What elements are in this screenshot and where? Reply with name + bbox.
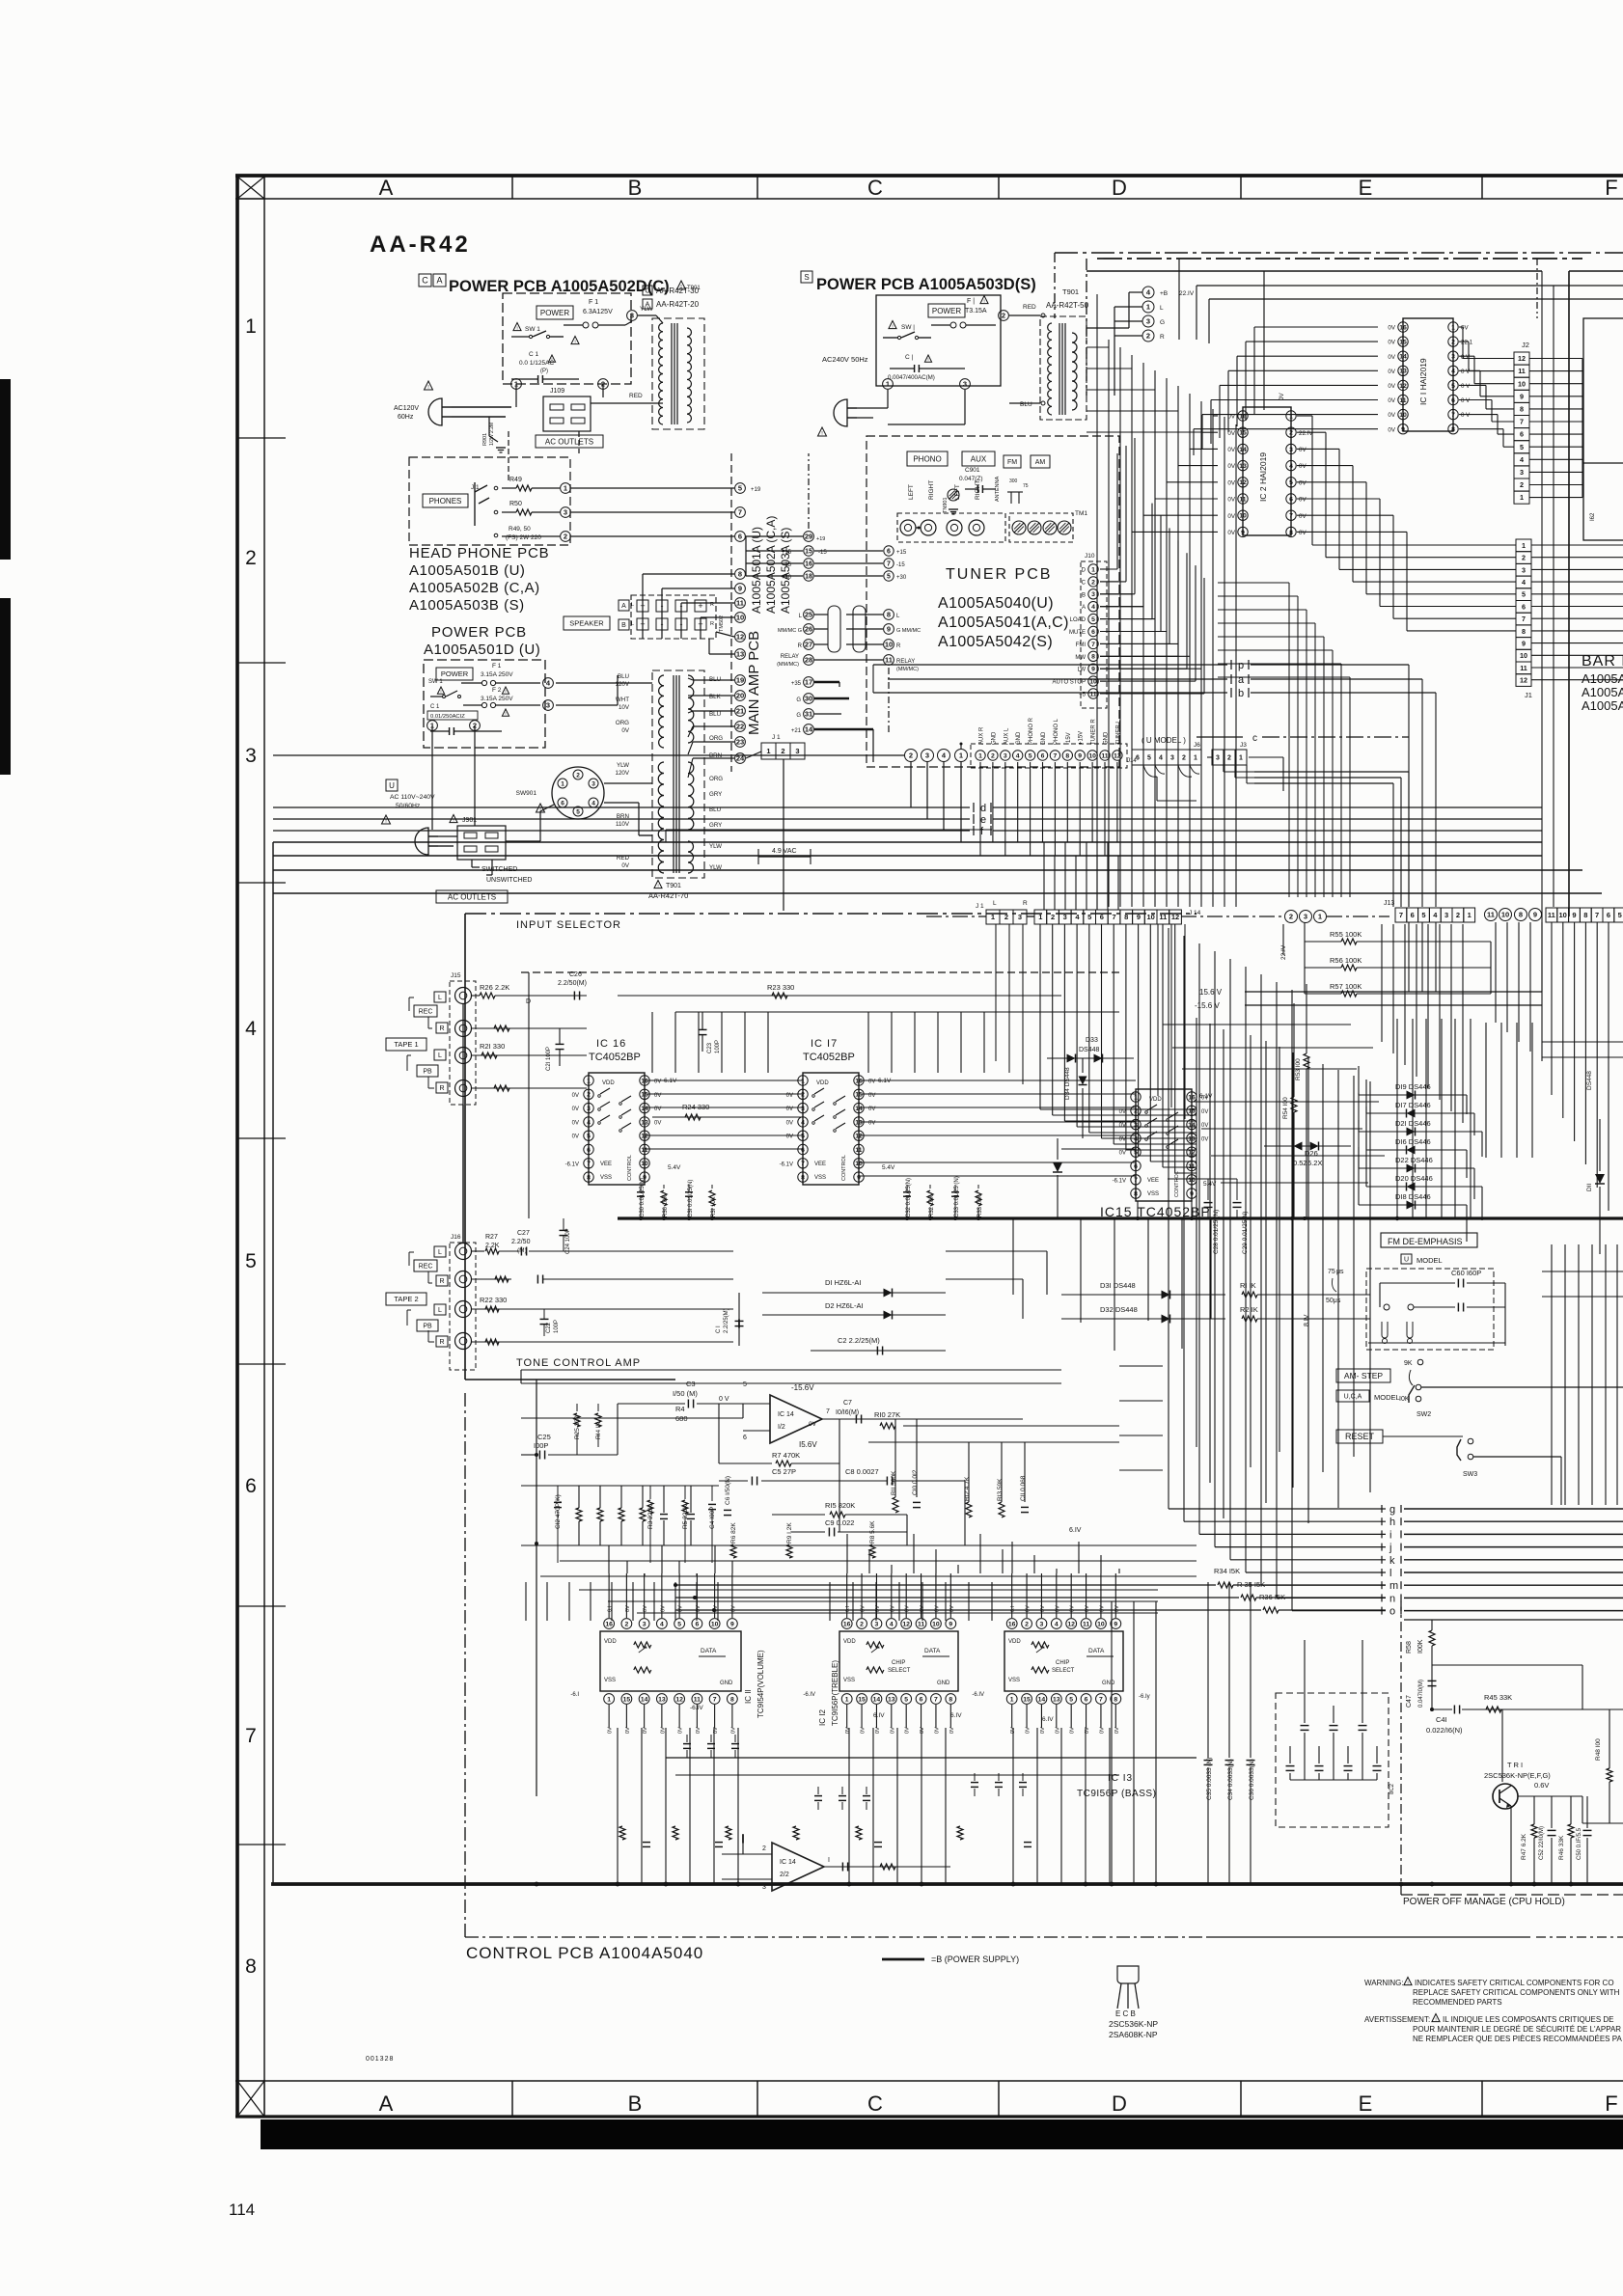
svg-text:SW2: SW2 — [1417, 1411, 1431, 1418]
svg-text:14: 14 — [641, 1106, 648, 1112]
svg-text:7: 7 — [887, 561, 891, 568]
svg-text:-15.6V: -15.6V — [791, 1383, 814, 1392]
svg-text:7: 7 — [1522, 615, 1526, 623]
svg-text:RED: RED — [629, 393, 643, 399]
svg-text:POWER: POWER — [540, 309, 569, 317]
svg-text:PB: PB — [423, 1069, 432, 1076]
svg-text:0V: 0V — [1388, 325, 1395, 332]
svg-text:0V: 0V — [730, 1727, 736, 1734]
svg-text:R50: R50 — [509, 501, 522, 507]
svg-text:4: 4 — [1289, 463, 1293, 470]
svg-text:21: 21 — [736, 707, 744, 716]
svg-text:VDD: VDD — [843, 1639, 856, 1645]
svg-text:TONE CONTROL AMP: TONE CONTROL AMP — [516, 1357, 641, 1369]
svg-text:9: 9 — [730, 1621, 734, 1627]
svg-text:L: L — [438, 1052, 442, 1059]
svg-text:30: 30 — [805, 695, 812, 703]
svg-text:11: 11 — [1101, 752, 1108, 759]
svg-text:a: a — [1238, 674, 1245, 686]
svg-text:1: 1 — [801, 1078, 805, 1084]
svg-text:I/50 (M): I/50 (M) — [673, 1389, 698, 1398]
svg-text:AA-R42T-30: AA-R42T-30 — [656, 287, 700, 295]
svg-text:1: 1 — [607, 1696, 611, 1703]
svg-text:8.IV: 8.IV — [1304, 1314, 1310, 1326]
svg-text:A1005A501D (U): A1005A501D (U) — [424, 642, 540, 658]
svg-text:14: 14 — [1038, 1696, 1046, 1703]
svg-text:0V: 0V — [654, 1080, 661, 1085]
svg-text:4: 4 — [1159, 755, 1163, 762]
svg-text:POWER PCB: POWER PCB — [431, 624, 527, 641]
svg-text:CHIP: CHIP — [892, 1660, 905, 1666]
svg-text:0V: 0V — [1299, 497, 1307, 504]
svg-text:INDICATES SAFETY CRITICAL COMP: INDICATES SAFETY CRITICAL COMPONENTS FOR… — [1415, 1979, 1614, 1987]
svg-text:9: 9 — [887, 625, 891, 634]
svg-text:4: 4 — [1451, 369, 1455, 375]
svg-text:!: ! — [551, 357, 552, 362]
svg-text:R45 33K: R45 33K — [1484, 1693, 1512, 1702]
svg-text:7: 7 — [1595, 911, 1599, 919]
svg-text:4: 4 — [1520, 455, 1524, 464]
svg-text:U: U — [389, 781, 395, 790]
svg-text:1: 1 — [1146, 303, 1150, 312]
svg-text:3: 3 — [1040, 1621, 1044, 1627]
svg-text:R22 330: R22 330 — [480, 1296, 507, 1304]
svg-text:10: 10 — [932, 1621, 940, 1627]
svg-text:WARNING:: WARNING: — [1364, 1979, 1404, 1987]
svg-text:-6.1V: -6.1V — [780, 1162, 793, 1167]
svg-text:R36 I5K: R36 I5K — [1259, 1593, 1285, 1601]
svg-text:DATA: DATA — [701, 1648, 717, 1654]
svg-text:7: 7 — [245, 1725, 257, 1747]
svg-text:0V: 0V — [621, 862, 629, 869]
svg-text:12: 12 — [1239, 479, 1247, 486]
svg-text:D26: D26 — [1305, 1149, 1318, 1158]
svg-text:0V: 0V — [1299, 463, 1307, 470]
svg-text:11: 11 — [694, 1696, 701, 1703]
svg-text:14: 14 — [1188, 1122, 1196, 1129]
svg-text:6.1V: 6.1V — [1199, 1093, 1213, 1100]
svg-text:12: 12 — [1188, 1150, 1196, 1157]
svg-text:6: 6 — [738, 533, 742, 541]
svg-text:T3.15A: T3.15A — [965, 308, 987, 314]
svg-text:C 1: C 1 — [430, 704, 440, 710]
svg-text:J10: J10 — [1085, 553, 1095, 560]
svg-text:3: 3 — [1004, 752, 1007, 759]
svg-text:d: d — [980, 803, 986, 814]
svg-text:PB: PB — [423, 1324, 432, 1330]
svg-text:17: 17 — [805, 678, 812, 687]
svg-text:B: B — [628, 176, 643, 200]
svg-text:9: 9 — [1190, 1191, 1194, 1198]
svg-text:CONTROL: CONTROL — [841, 1155, 847, 1181]
svg-text:R58: R58 — [1406, 1641, 1413, 1654]
svg-text:C35 0.0033 (N): C35 0.0033 (N) — [1206, 1758, 1213, 1800]
svg-text:50/60Hz: 50/60Hz — [396, 803, 421, 809]
svg-text:C8 0.0027: C8 0.0027 — [845, 1467, 879, 1476]
svg-text:LEFT: LEFT — [954, 484, 961, 500]
svg-text:R: R — [439, 1278, 444, 1285]
svg-text:YLW: YLW — [617, 762, 629, 769]
svg-text:0V: 0V — [1055, 1727, 1060, 1734]
svg-text:AC 110V~240V: AC 110V~240V — [390, 794, 435, 801]
svg-text:RECOMMENDED PARTS: RECOMMENDED PARTS — [1413, 1998, 1502, 2007]
svg-text:ORG: ORG — [709, 735, 723, 742]
svg-text:R54 I00: R54 I00 — [1282, 1097, 1289, 1119]
svg-text:C60 I60P: C60 I60P — [1451, 1269, 1481, 1277]
svg-text:22: 22 — [736, 723, 744, 731]
svg-text:1: 1 — [845, 1696, 849, 1703]
svg-text:NE REMPLACER QUE DES PIÈCES RE: NE REMPLACER QUE DES PIÈCES RECOMMANDÉES… — [1413, 2035, 1622, 2043]
svg-text:!: ! — [453, 817, 454, 823]
svg-text:28: 28 — [805, 656, 812, 665]
svg-text:0V: 0V — [1299, 447, 1307, 453]
svg-text:F: F — [1605, 2091, 1617, 2116]
svg-text:2: 2 — [1182, 755, 1186, 762]
svg-text:2: 2 — [1289, 913, 1293, 921]
svg-text:MODEL: MODEL — [1417, 1256, 1443, 1265]
svg-text:4: 4 — [591, 800, 595, 806]
svg-text:2.2/50(M): 2.2/50(M) — [558, 980, 587, 987]
svg-text:AUX L: AUX L — [1004, 727, 1009, 745]
svg-text:300: 300 — [1009, 478, 1018, 484]
svg-text:5: 5 — [1618, 911, 1622, 919]
svg-text:13: 13 — [736, 650, 744, 659]
svg-text:FMI: FMI — [1076, 642, 1087, 648]
svg-text:1: 1 — [1134, 1094, 1138, 1101]
svg-text:C: C — [422, 276, 428, 286]
svg-text:C23: C23 — [707, 1042, 713, 1053]
svg-text:5.4V: 5.4V — [882, 1164, 895, 1171]
svg-text:6: 6 — [245, 1475, 257, 1497]
svg-text:5: 5 — [576, 808, 580, 815]
svg-text:20: 20 — [736, 692, 744, 700]
svg-text:0V: 0V — [1040, 1605, 1046, 1612]
svg-text:!: ! — [657, 883, 658, 888]
svg-text:J16: J16 — [451, 1234, 461, 1241]
svg-text:12: 12 — [675, 1696, 683, 1703]
svg-text:19: 19 — [736, 676, 744, 685]
svg-text:0V: 0V — [875, 1727, 881, 1734]
svg-text:e: e — [980, 814, 986, 826]
svg-text:L: L — [631, 621, 634, 627]
svg-text:16: 16 — [641, 1078, 648, 1084]
svg-text:0.5Z6.2X: 0.5Z6.2X — [1293, 1159, 1322, 1167]
svg-text:7: 7 — [1091, 642, 1095, 648]
svg-text:9: 9 — [738, 585, 742, 593]
svg-text:RI3 59K: RI3 59K — [997, 1478, 1004, 1501]
svg-text:CONTROL: CONTROL — [627, 1155, 633, 1181]
svg-text:!: ! — [983, 298, 984, 304]
svg-text:11: 11 — [1083, 1621, 1089, 1627]
svg-text:0V: 0V — [1388, 383, 1395, 390]
svg-text:0 V: 0 V — [1461, 412, 1471, 419]
svg-text:-6.IV: -6.IV — [972, 1692, 984, 1698]
svg-text:3: 3 — [587, 1106, 591, 1112]
svg-text:0V: 0V — [1201, 1123, 1208, 1129]
svg-text:A1005A503A (S): A1005A503A (S) — [779, 528, 792, 614]
svg-text:TUNER PCB: TUNER PCB — [946, 566, 1052, 583]
svg-text:IC II: IC II — [744, 1689, 753, 1704]
svg-text:+30: +30 — [896, 575, 907, 581]
svg-text:0 V: 0 V — [1461, 383, 1471, 390]
svg-text:0V: 0V — [1114, 1727, 1120, 1734]
svg-text:D3I DS448: D3I DS448 — [1100, 1281, 1136, 1290]
svg-text:C4I: C4I — [1436, 1715, 1447, 1724]
svg-text:14: 14 — [1239, 447, 1247, 453]
svg-text:C52 22/I0(M): C52 22/I0(M) — [1539, 1826, 1545, 1860]
svg-text:DI HZ6L-AI: DI HZ6L-AI — [825, 1278, 862, 1287]
svg-text:POUR MAINTENIR LE DEGRÉ DE SÉC: POUR MAINTENIR LE DEGRÉ DE SÉCURITÉ DE L… — [1413, 2025, 1621, 2034]
svg-text:GND: GND — [1016, 731, 1022, 745]
svg-text:9K: 9K — [1404, 1360, 1413, 1367]
svg-text:( U MODEL ): ( U MODEL ) — [1142, 736, 1186, 745]
svg-text:D33: D33 — [1086, 1037, 1098, 1044]
svg-text:3: 3 — [1444, 911, 1448, 919]
svg-text:120V: 120V — [616, 681, 630, 688]
svg-text:C26: C26 — [569, 971, 582, 978]
svg-text:4: 4 — [1522, 578, 1526, 587]
svg-text:!: ! — [927, 357, 928, 362]
svg-text:2SC536K-NP(E,F,G): 2SC536K-NP(E,F,G) — [1484, 1771, 1551, 1780]
svg-text:R4: R4 — [675, 1405, 685, 1413]
svg-text:8: 8 — [1522, 627, 1526, 636]
svg-text:9: 9 — [1522, 640, 1526, 648]
svg-text:REC: REC — [419, 1009, 433, 1016]
svg-text:8: 8 — [730, 1696, 734, 1703]
svg-text:0V: 0V — [1299, 479, 1307, 486]
svg-text:o: o — [1389, 1606, 1395, 1618]
svg-text:-6.I: -6.I — [570, 1692, 579, 1698]
svg-text:16: 16 — [855, 1078, 863, 1084]
svg-text:R6 82K: R6 82K — [730, 1522, 737, 1544]
svg-text:μs: μs — [1336, 1269, 1344, 1275]
svg-text:4: 4 — [245, 1018, 257, 1040]
svg-text:0V: 0V — [809, 1421, 817, 1428]
svg-text:-6.1V: -6.1V — [565, 1162, 579, 1167]
svg-text:4: 4 — [1091, 604, 1095, 611]
svg-text:1: 1 — [1451, 324, 1455, 331]
svg-text:J15: J15 — [451, 972, 461, 979]
svg-text:=B (POWER SUPPLY): =B (POWER SUPPLY) — [931, 1954, 1019, 1964]
svg-text:AVERTISSEMENT:: AVERTISSEMENT: — [1364, 2015, 1430, 2024]
svg-text:c: c — [1252, 733, 1257, 744]
svg-text:GND: GND — [1102, 1681, 1115, 1686]
svg-text:0V: 0V — [643, 1605, 648, 1612]
svg-text:RELAY: RELAY — [781, 654, 799, 660]
svg-text:5: 5 — [801, 1134, 805, 1140]
svg-text:!: ! — [574, 339, 575, 344]
svg-text:C2I 100P: C2I 100P — [546, 1047, 552, 1071]
svg-text:0.0047/400AC(M): 0.0047/400AC(M) — [888, 374, 935, 381]
svg-text:3: 3 — [875, 1621, 879, 1627]
svg-text:DATA: DATA — [1088, 1648, 1105, 1654]
svg-text:HEAD PHONE PCB: HEAD PHONE PCB — [409, 545, 549, 561]
svg-text:10: 10 — [1097, 1621, 1105, 1627]
svg-text:8: 8 — [738, 570, 742, 579]
svg-text:6: 6 — [801, 1147, 805, 1154]
svg-text:10: 10 — [1188, 1177, 1196, 1184]
svg-text:R49, 50: R49, 50 — [509, 526, 531, 533]
svg-text:12: 12 — [902, 1621, 910, 1627]
svg-text:15: 15 — [641, 1092, 648, 1099]
svg-text:75: 75 — [1023, 483, 1029, 489]
svg-text:G: G — [796, 697, 801, 703]
svg-text:A: A — [621, 603, 626, 610]
svg-text:7: 7 — [1112, 913, 1115, 921]
svg-text:BLK: BLK — [709, 694, 722, 700]
svg-text:R46 33K: R46 33K — [1558, 1835, 1565, 1860]
svg-text:POWER: POWER — [441, 670, 469, 678]
svg-text:I: I — [828, 1857, 830, 1864]
svg-text:3: 3 — [801, 1106, 805, 1112]
svg-text:16: 16 — [1188, 1094, 1196, 1101]
svg-text:3: 3 — [245, 745, 257, 767]
svg-text:C: C — [1082, 580, 1087, 586]
svg-text:SPEAKER: SPEAKER — [569, 619, 604, 628]
svg-text:12: 12 — [736, 633, 744, 642]
svg-text:0V: 0V — [1388, 369, 1395, 375]
svg-text:0V: 0V — [625, 1605, 631, 1612]
svg-text:11: 11 — [1188, 1163, 1195, 1170]
svg-text:2: 2 — [860, 1621, 864, 1627]
svg-text:0V: 0V — [1119, 1123, 1126, 1129]
svg-text:0 V: 0 V — [719, 1396, 729, 1403]
svg-text:6.IV: 6.IV — [1069, 1527, 1082, 1534]
svg-text:U: U — [1404, 1257, 1409, 1264]
svg-text:i: i — [1389, 1529, 1391, 1541]
svg-text:J3: J3 — [1240, 742, 1247, 749]
svg-text:12: 12 — [1399, 383, 1407, 390]
svg-text:10: 10 — [711, 1621, 719, 1627]
svg-text:6: 6 — [1411, 911, 1415, 919]
svg-text:5: 5 — [1421, 911, 1425, 919]
svg-text:J109: J109 — [550, 388, 564, 395]
svg-text:(FS) 2W 220: (FS) 2W 220 — [506, 534, 541, 541]
svg-text:IC 16: IC 16 — [596, 1038, 626, 1050]
svg-text:I00K: I00K — [1417, 1639, 1424, 1654]
svg-text:!: ! — [1435, 2016, 1436, 2022]
svg-text:R8 5.6K: R8 5.6K — [869, 1520, 876, 1544]
svg-text:VSS: VSS — [814, 1175, 826, 1181]
svg-text:2: 2 — [762, 1845, 766, 1852]
svg-text:3: 3 — [795, 747, 799, 755]
svg-text:RII 560K: RII 560K — [891, 1470, 897, 1495]
svg-text:14: 14 — [855, 1106, 863, 1112]
svg-text:13: 13 — [1399, 369, 1407, 375]
svg-text:D2 HZ6L-AI: D2 HZ6L-AI — [825, 1301, 864, 1310]
svg-text:001328: 001328 — [366, 2056, 394, 2063]
svg-text:1/2W 2.2M: 1/2W 2.2M — [489, 423, 495, 446]
svg-text:A: A — [436, 276, 442, 286]
svg-text:5: 5 — [743, 1381, 747, 1388]
svg-text:75: 75 — [1328, 1269, 1335, 1275]
svg-text:5: 5 — [1289, 479, 1293, 486]
svg-text:6: 6 — [1289, 496, 1293, 503]
svg-text:3: 3 — [1091, 591, 1095, 598]
svg-text:!: ! — [505, 689, 506, 694]
svg-text:5: 5 — [1091, 616, 1095, 623]
svg-text:26: 26 — [805, 625, 812, 634]
svg-text:11: 11 — [855, 1147, 862, 1154]
svg-text:0V: 0V — [1026, 1605, 1032, 1612]
svg-text:-6.IV: -6.IV — [803, 1692, 815, 1698]
svg-text:15: 15 — [1239, 430, 1247, 437]
svg-text:8: 8 — [801, 1175, 805, 1182]
svg-text:0V: 0V — [678, 1727, 684, 1734]
svg-text:16: 16 — [1008, 1621, 1016, 1627]
svg-text:AUTO STOP: AUTO STOP — [1053, 680, 1086, 686]
svg-text:AUX: AUX — [971, 454, 987, 463]
svg-text:15: 15 — [1188, 1108, 1196, 1115]
svg-text:IL INDIQUE LES COMPOSANTS CRIT: IL INDIQUE LES COMPOSANTS CRITIQUES DE — [1443, 2015, 1614, 2024]
svg-text:GND: GND — [720, 1681, 733, 1686]
svg-text:8: 8 — [1114, 1696, 1117, 1703]
svg-text:R: R — [1160, 334, 1165, 341]
svg-text:0V: 0V — [1461, 325, 1469, 332]
svg-text:BAR M: BAR M — [1582, 653, 1623, 670]
svg-text:0V: 0V — [1099, 1727, 1105, 1734]
svg-text:3: 3 — [630, 312, 634, 320]
svg-text:15: 15 — [1399, 340, 1407, 346]
svg-text:R48 I00: R48 I00 — [1595, 1738, 1602, 1761]
svg-text:8: 8 — [1519, 911, 1523, 919]
svg-text:7: 7 — [738, 508, 742, 517]
svg-text:GND: GND — [991, 731, 997, 745]
svg-text:A1005A: A1005A — [1582, 671, 1623, 686]
svg-text:TC9I56P (BASS): TC9I56P (BASS) — [1077, 1789, 1156, 1799]
svg-text:J 1: J 1 — [976, 903, 984, 910]
svg-text:6.IV: 6.IV — [950, 1712, 962, 1719]
svg-text:C27: C27 — [517, 1230, 530, 1237]
svg-text:L: L — [438, 995, 442, 1001]
svg-text:3.15A 250V: 3.15A 250V — [481, 696, 513, 702]
svg-text:A1005A502B (C,A): A1005A502B (C,A) — [409, 580, 540, 596]
svg-text:16: 16 — [805, 561, 812, 568]
svg-text:2: 2 — [801, 1092, 805, 1099]
svg-text:0V: 0V — [1201, 1136, 1208, 1142]
svg-text:0 V: 0 V — [1461, 397, 1471, 404]
svg-text:10: 10 — [1559, 911, 1567, 919]
svg-text:8: 8 — [1520, 405, 1524, 414]
svg-text:A1005A: A1005A — [1582, 698, 1623, 713]
svg-text:AA-R42T-20: AA-R42T-20 — [656, 300, 700, 309]
svg-text:VSS: VSS — [604, 1678, 616, 1683]
svg-text:D: D — [1112, 2091, 1127, 2116]
svg-text:8: 8 — [887, 611, 891, 619]
svg-text:VEE: VEE — [1147, 1178, 1159, 1184]
svg-text:7: 7 — [713, 1696, 717, 1703]
svg-text:11: 11 — [1520, 664, 1527, 672]
svg-text:0V: 0V — [1388, 397, 1395, 404]
svg-text:C: C — [867, 2091, 883, 2116]
svg-text:1: 1 — [245, 315, 257, 338]
svg-text:7: 7 — [1099, 1696, 1103, 1703]
svg-text:AUX R: AUX R — [979, 726, 985, 745]
svg-text:7: 7 — [934, 1696, 938, 1703]
svg-text:0V: 0V — [1085, 1605, 1090, 1612]
svg-text:D34 DS448: D34 DS448 — [1064, 1067, 1071, 1100]
svg-text:CI0 0.0I2: CI0 0.0I2 — [912, 1469, 919, 1495]
svg-text:FM DE-EMPHASIS: FM DE-EMPHASIS — [1388, 1237, 1463, 1246]
svg-text:0V: 0V — [949, 1605, 955, 1612]
svg-text:1: 1 — [1194, 755, 1197, 762]
svg-text:14: 14 — [641, 1696, 648, 1703]
svg-text:YLW: YLW — [640, 306, 653, 313]
svg-text:0V: 0V — [1227, 463, 1235, 470]
svg-text:0.01/250ACIZ: 0.01/250ACIZ — [430, 714, 465, 720]
svg-text:SELECT: SELECT — [1052, 1668, 1075, 1674]
svg-text:0V: 0V — [890, 1605, 895, 1612]
